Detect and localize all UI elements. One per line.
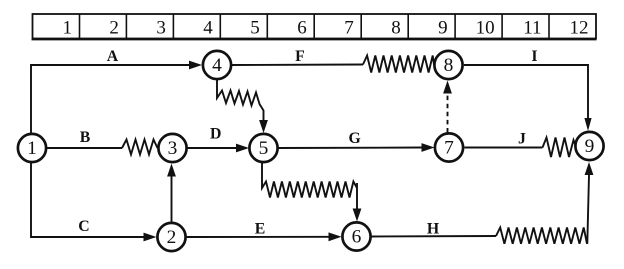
svg-text:9: 9 bbox=[585, 136, 595, 157]
svg-text:C: C bbox=[78, 218, 89, 235]
svg-text:4: 4 bbox=[203, 18, 213, 39]
svg-text:I: I bbox=[531, 48, 537, 65]
svg-text:8: 8 bbox=[391, 18, 401, 39]
svg-text:5: 5 bbox=[250, 18, 260, 39]
svg-text:10: 10 bbox=[476, 18, 495, 39]
svg-text:3: 3 bbox=[168, 138, 178, 159]
svg-text:1: 1 bbox=[27, 138, 37, 159]
svg-text:D: D bbox=[210, 125, 221, 142]
svg-text:2: 2 bbox=[109, 18, 119, 39]
svg-text:12: 12 bbox=[570, 18, 589, 39]
svg-text:6: 6 bbox=[297, 18, 307, 39]
svg-text:5: 5 bbox=[259, 138, 269, 159]
svg-text:J: J bbox=[518, 131, 526, 148]
svg-text:H: H bbox=[427, 221, 440, 238]
svg-text:8: 8 bbox=[444, 55, 454, 76]
svg-text:9: 9 bbox=[438, 18, 448, 39]
svg-text:7: 7 bbox=[444, 138, 454, 159]
svg-text:1: 1 bbox=[63, 18, 73, 39]
svg-text:4: 4 bbox=[212, 55, 222, 76]
svg-text:G: G bbox=[348, 130, 360, 147]
svg-text:11: 11 bbox=[523, 18, 541, 39]
svg-text:7: 7 bbox=[344, 18, 354, 39]
svg-text:E: E bbox=[255, 221, 266, 238]
svg-text:F: F bbox=[295, 48, 305, 65]
svg-text:2: 2 bbox=[167, 227, 177, 248]
svg-text:6: 6 bbox=[352, 227, 362, 248]
svg-text:A: A bbox=[107, 48, 119, 65]
svg-text:3: 3 bbox=[156, 18, 166, 39]
svg-text:B: B bbox=[80, 129, 91, 146]
